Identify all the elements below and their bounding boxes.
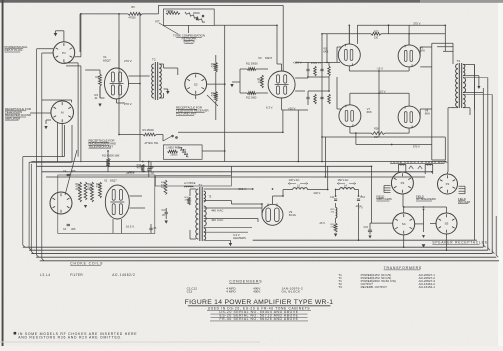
svg-text:AO-14682/2: AO-14682/2 [112, 273, 135, 277]
svg-text:V3: V3 [258, 56, 262, 60]
svg-text:S4: S4 [402, 222, 406, 226]
svg-text:P2: P2 [446, 182, 450, 186]
svg-text:T3: T3 [338, 285, 342, 289]
svg-text:C15: C15 [364, 226, 369, 229]
svg-text:FR-40 SERIAL NO. 56425 AND ABO: FR-40 SERIAL NO. 56425 AND ABOVE [220, 317, 299, 321]
svg-text:P4: P4 [401, 181, 405, 185]
svg-text:ATT.: ATT. [155, 20, 160, 24]
svg-text:47000: 47000 [211, 66, 219, 69]
svg-text:6K6: 6K6 [367, 110, 372, 114]
svg-text:250 OHM: 250 OHM [458, 200, 471, 204]
svg-text:HEATERS: HEATERS [233, 236, 246, 240]
svg-text:L3,L4: L3,L4 [40, 273, 50, 277]
svg-text:R11 39000: R11 39000 [246, 63, 258, 66]
svg-text:16.5 V.: 16.5 V. [126, 225, 135, 229]
svg-text:440 V.AC: 440 V.AC [211, 209, 223, 213]
svg-text:R27: R27 [374, 31, 379, 34]
svg-text:47000: 47000 [211, 95, 219, 98]
svg-text:25000: 25000 [193, 12, 200, 15]
svg-text:MEG: MEG [88, 189, 93, 191]
svg-text:.33: .33 [150, 172, 154, 175]
svg-text:TRANSFORMERS: TRANSFORMERS [384, 266, 422, 270]
svg-text:SPEAKER RECEPTACLES: SPEAKER RECEPTACLES [432, 240, 487, 244]
svg-text:5U4G: 5U4G [289, 213, 296, 217]
svg-text:.005: .005 [71, 170, 76, 173]
svg-text:41: 41 [95, 96, 99, 100]
svg-text:L2 CHOKE: L2 CHOKE [184, 183, 196, 185]
svg-text:-15 V.: -15 V. [377, 67, 384, 71]
svg-text:INPUT PLUG: INPUT PLUG [5, 48, 24, 52]
svg-text:SWITCH: SWITCH [183, 40, 194, 44]
svg-text:R4: R4 [96, 75, 100, 79]
svg-text:47000: 47000 [128, 16, 136, 20]
svg-text:S2: S2 [194, 82, 198, 86]
svg-text:C10: C10 [162, 209, 167, 212]
svg-text:1100: 1100 [258, 82, 264, 84]
svg-text:FILTER: FILTER [70, 273, 83, 277]
svg-text:1 MEG R6: 1 MEG R6 [166, 147, 178, 150]
svg-text:5000 OHMS: 5000 OHMS [376, 197, 392, 201]
svg-text:T3: T3 [457, 59, 461, 63]
svg-text:S5: S5 [445, 222, 449, 226]
svg-text:23000: 23000 [166, 9, 174, 13]
svg-text:6SQ7: 6SQ7 [103, 59, 111, 63]
svg-text:ATTEN. SW.: ATTEN. SW. [145, 142, 159, 145]
svg-text:V2: V2 [104, 178, 108, 182]
svg-text:TELEVISION UNIT: TELEVISION UNIT [89, 144, 114, 148]
svg-text:FIGURE 14 POWER AMPLIFIER TYP: FIGURE 14 POWER AMPLIFIER TYPE WR-1 [185, 299, 334, 306]
svg-text:6K6: 6K6 [323, 50, 328, 54]
svg-text:C13: C13 [187, 289, 193, 293]
svg-text:25000: 25000 [171, 154, 179, 157]
svg-text:870 V.: 870 V. [413, 144, 421, 148]
svg-text:+6.5 V.: +6.5 V. [126, 171, 135, 175]
svg-text:R13 45000 10W.: R13 45000 10W. [102, 155, 120, 158]
svg-text:AMPLIFIER: AMPLIFIER [5, 116, 20, 120]
svg-text:.005: .005 [71, 228, 76, 231]
svg-text:OF SPEAKERS: OF SPEAKERS [416, 197, 436, 201]
svg-text:150: 150 [374, 37, 379, 40]
svg-text:VOICE COILS 2.8 OHMS EACH: VOICE COILS 2.8 OHMS EACH [390, 160, 449, 164]
svg-text:OIL BLOCK: OIL BLOCK [282, 289, 302, 293]
svg-text:270 V.: 270 V. [124, 59, 132, 63]
svg-text:130 V.AC: 130 V.AC [289, 178, 300, 182]
svg-text:CONDENSERS: CONDENSERS [229, 279, 262, 283]
svg-text:240 V.: 240 V. [314, 191, 322, 195]
svg-text:P1: P1 [62, 51, 66, 55]
svg-text:47000: 47000 [185, 199, 192, 201]
svg-text:PICTURE UNIT: PICTURE UNIT [176, 112, 196, 116]
svg-text:4700: 4700 [137, 167, 143, 170]
svg-text:REVERB. OUTPUT: REVERB. OUTPUT [361, 285, 388, 289]
svg-text:400V.: 400V. [253, 289, 261, 293]
svg-text:150: 150 [374, 136, 379, 139]
svg-text:R28: R28 [374, 128, 379, 131]
svg-text:AO-16154-1: AO-16154-1 [419, 285, 436, 289]
svg-text:270 V.: 270 V. [124, 102, 132, 106]
svg-text:150 V.AC: 150 V.AC [338, 178, 349, 182]
svg-text:47000: 47000 [311, 63, 318, 65]
svg-text:375 V.: 375 V. [413, 22, 421, 26]
svg-text:C11: C11 [330, 196, 335, 199]
svg-text:27000: 27000 [331, 226, 338, 228]
svg-text:6SQ7: 6SQ7 [110, 178, 117, 182]
svg-text:CHOKE COILS: CHOKE COILS [70, 262, 103, 266]
svg-text:R3 45000: R3 45000 [143, 128, 155, 132]
svg-text:4700: 4700 [96, 187, 102, 189]
svg-text:6K6: 6K6 [425, 112, 430, 116]
svg-text:R5: R5 [131, 5, 135, 9]
svg-text:-15 V.: -15 V. [319, 221, 326, 225]
svg-text:R12 3900: R12 3900 [246, 97, 257, 100]
svg-text:6SN7: 6SN7 [265, 56, 273, 60]
svg-text:4 MFD.: 4 MFD. [226, 289, 236, 293]
svg-text:6.3 V.: 6.3 V. [266, 106, 273, 110]
svg-text:7 V.: 7 V. [359, 207, 363, 210]
svg-text:T1: T1 [199, 183, 203, 187]
svg-text:T2: T2 [152, 58, 156, 62]
svg-text:AND RESISTORS R26 AND R29 ARE: AND RESISTORS R26 AND R29 ARE OMITTED. [18, 336, 122, 340]
svg-text:6K6: 6K6 [420, 49, 425, 53]
